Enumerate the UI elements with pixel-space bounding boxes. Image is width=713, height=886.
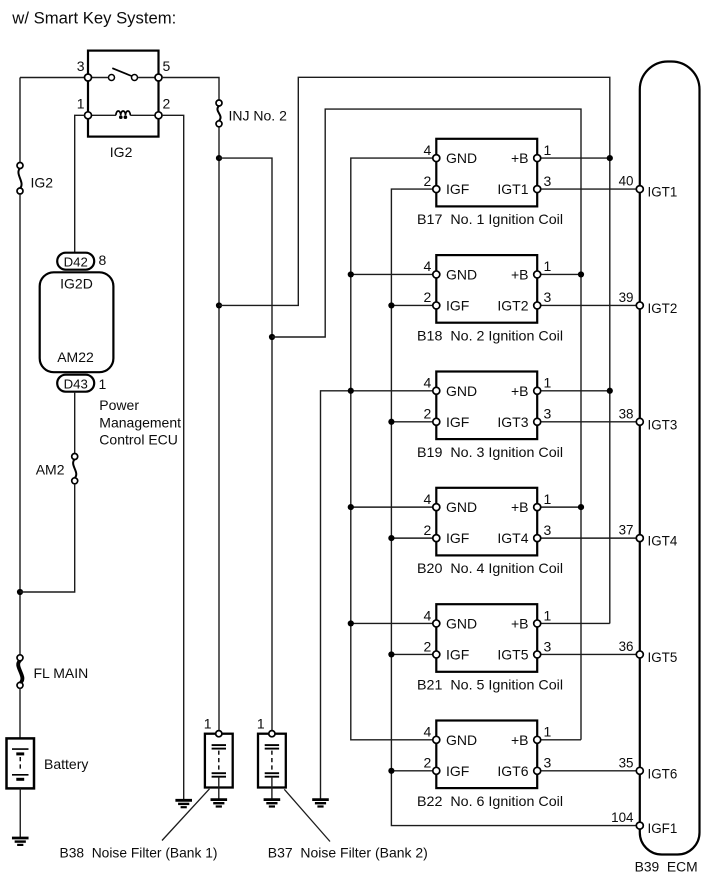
svg-text:B22 No. 6 Ignition Coil: B22 No. 6 Ignition Coil [417,793,563,809]
B18 pin 2 IGF [424,289,470,313]
wire: B22 IGF stub [391,770,436,772]
svg-text:IGF: IGF [446,297,469,313]
ECM pin 38 IGT3 [619,406,678,432]
svg-text:4: 4 [424,258,432,274]
battery B [7,738,89,788]
wire: B20 GND stub [351,506,437,508]
svg-text:B18 No. 2 Ignition Coil: B18 No. 2 Ignition Coil [417,327,563,343]
svg-text:+B: +B [511,266,529,282]
wire: B21 +B stub [541,622,610,624]
wire: relay switch internal [92,77,156,79]
ECM pin 35 IGT6 [619,755,678,781]
wire: B20 IGF stub [391,537,436,539]
svg-text:36: 36 [619,639,634,654]
wire: B18 GND stub [351,273,437,275]
label B19 No. 3 Ignition Coil [417,444,563,460]
svg-text:B20 No. 4 Ignition Coil: B20 No. 4 Ignition Coil [417,560,563,576]
wire: B22 +B stub [541,739,581,741]
Power Management Control ECU box [40,272,114,372]
svg-text:IGT3: IGT3 [497,414,528,430]
wire: bank1 bus riser [219,77,610,623]
wire: AM2 fuse to battery rail [20,484,75,592]
wire: IGT5 to ECM [541,653,636,655]
node: bank2 bus take-off [269,334,275,340]
B18 pin 1 +B [511,258,552,282]
ignition coil B20 box [436,488,537,556]
svg-text:B39 ECM: B39 ECM [635,859,698,874]
svg-text:4: 4 [424,724,432,740]
svg-text:Power: Power [99,397,139,413]
svg-text:GND: GND [446,499,477,515]
ignition coil B22 box [436,721,537,789]
svg-text:B21 No. 5 Ignition Coil: B21 No. 5 Ignition Coil [417,676,563,692]
B17 pin 1 +B [511,142,552,166]
B21 pin 3 IGT5 [497,638,551,662]
svg-text:B19 No. 3 Ignition Coil: B19 No. 3 Ignition Coil [417,444,563,460]
connector D42 [57,252,106,270]
B22 pin 3 IGT6 [497,755,551,779]
B17 pin 2 IGF [424,173,470,197]
relay terminal 2 [155,96,171,119]
B20 pin 2 IGF [424,522,470,546]
svg-text:1: 1 [544,491,552,507]
svg-text:104: 104 [611,810,634,825]
svg-text:39: 39 [619,290,634,305]
ignition coil B18 box [436,255,537,323]
svg-text:40: 40 [619,174,634,189]
svg-text:3: 3 [544,755,552,771]
svg-text:GND: GND [446,266,477,282]
svg-text:IGT2: IGT2 [648,301,678,316]
svg-text:2: 2 [424,638,432,654]
wire: IGF bus [391,189,636,826]
wire: battery rail mid segment [19,194,21,655]
label: Power Management Control ECU [99,397,181,448]
svg-text:IGT5: IGT5 [648,650,678,665]
label B18 No. 2 Ignition Coil [417,327,563,343]
label B20 No. 4 Ignition Coil [417,560,563,576]
B19 pin 2 IGF [424,406,470,430]
relay IG2 coil [92,111,156,119]
fuse IG2 [17,163,53,195]
B21 pin 4 GND [424,607,478,631]
fuse AM2 [36,454,78,484]
label B38 Noise Filter (Bank 1) [60,844,218,860]
svg-text:3: 3 [544,406,552,422]
svg-text:INJ No. 2: INJ No. 2 [229,108,288,124]
B18 pin 4 GND [424,258,478,282]
svg-text:IGT6: IGT6 [497,763,528,779]
B20 pin 1 +B [511,491,552,515]
svg-text:IGF1: IGF1 [648,821,678,836]
svg-text:+B: +B [511,499,529,515]
wire: FL MAIN to battery [19,688,21,738]
B21 pin 1 +B [511,607,552,631]
svg-text:1: 1 [99,376,107,392]
B22 pin 2 IGF [424,755,470,779]
svg-text:5: 5 [163,58,171,74]
label B22 No. 6 Ignition Coil [417,793,563,809]
B17 pin 3 IGT1 [497,173,551,197]
wire: B18 IGF stub [391,304,436,306]
ground: ignition coil bank 1 [312,800,329,807]
svg-text:D43: D43 [64,376,88,391]
svg-text:3: 3 [77,58,85,74]
svg-text:2: 2 [424,522,432,538]
wire: IGT6 to ECM [541,770,636,772]
node: IGF bus junction B22 [388,768,394,774]
B17 pin 4 GND [424,142,478,166]
svg-text:B38 Noise Filter (Bank 1): B38 Noise Filter (Bank 1) [60,844,218,860]
wire: relay terminal 1 to D42 [75,115,85,253]
node: +B bus junction B19 [607,388,613,394]
wire: IGT2 to ECM [541,304,636,306]
noise filter B37 (Bank 2) [257,716,286,807]
B21 pin 2 IGF [424,638,470,662]
B22 pin 1 +B [511,724,552,748]
wire: B19 +B stub [541,390,610,392]
svg-text:1: 1 [257,716,265,732]
svg-text:IGT3: IGT3 [648,417,678,432]
svg-text:IGT4: IGT4 [648,534,678,549]
svg-text:1: 1 [544,607,552,623]
noise filter B38 (Bank 1) [204,716,233,807]
svg-text:3: 3 [544,522,552,538]
ECM pin 104 IGF1 [611,810,677,836]
svg-text:D42: D42 [64,254,88,269]
ECM pin 36 IGT5 [619,639,678,665]
ignition coil B17 box [436,139,537,207]
svg-text:FL MAIN: FL MAIN [34,665,89,681]
svg-text:8: 8 [99,252,107,268]
svg-text:+B: +B [511,732,529,748]
node: +B bus junction B18 [578,271,584,277]
svg-text:+B: +B [511,615,529,631]
wire: IGT3 to ECM [541,421,636,423]
svg-text:Battery: Battery [44,756,88,772]
svg-text:2: 2 [424,755,432,771]
wire: battery to ground [19,788,21,837]
node: IGF bus junction B20 [388,535,394,541]
svg-text:2: 2 [163,96,171,112]
svg-text:1: 1 [544,375,552,391]
ground: battery [12,838,29,845]
svg-text:2: 2 [424,289,432,305]
B20 pin 4 GND [424,491,478,515]
node: IGF bus junction B18 [388,302,394,308]
svg-text:IGF: IGF [446,763,469,779]
svg-text:4: 4 [424,142,432,158]
ECM pin 40 IGT1 [619,174,678,200]
node: GND bus junction B20 [348,504,354,510]
wire: GND bus drop to ground [321,391,437,799]
relay terminal 1 [77,96,92,119]
label B21 No. 5 Ignition Coil [417,676,563,692]
wire: bank2 bus riser [272,109,581,740]
wire: relay terminal 5 to INJ No.2 fuse [162,78,219,100]
label B39 ECM [635,859,698,874]
svg-text:2: 2 [424,173,432,189]
B18 pin 3 IGT2 [497,289,551,313]
ignition coil B21 box [436,604,537,672]
node: +B bus junction B20 [578,504,584,510]
svg-text:3: 3 [544,173,552,189]
node: GND bus junction B21 [348,620,354,626]
svg-text:1: 1 [204,716,212,732]
B19 pin 4 GND [424,375,478,399]
wire: D43 to AM2 fuse [74,392,76,454]
svg-text:IGT4: IGT4 [497,530,528,546]
wire: B20 +B stub [541,506,581,508]
svg-text:3: 3 [544,289,552,305]
B20 pin 3 IGT4 [497,522,551,546]
svg-text:GND: GND [446,383,477,399]
svg-text:B37 Noise Filter (Bank 2): B37 Noise Filter (Bank 2) [268,844,428,860]
svg-text:37: 37 [619,523,634,538]
svg-text:IGT2: IGT2 [497,297,528,313]
wire: branch to B37 rail [219,158,272,730]
svg-text:B17 No. 1 Ignition Coil: B17 No. 1 Ignition Coil [417,211,563,227]
svg-text:GND: GND [446,150,477,166]
node: IGF bus junction B19 [388,419,394,425]
wire: B21 GND stub [351,622,437,624]
svg-text:Control ECU: Control ECU [99,432,178,448]
wire: battery rail top to relay terminal 3 [20,77,85,79]
node: +B bank2 take-off [216,155,222,161]
fusible link FL MAIN [17,655,88,689]
svg-text:IG2D: IG2D [60,275,93,291]
wire: IGT4 to ECM [541,537,636,539]
svg-text:4: 4 [424,491,432,507]
wire: relay terminal 2 to ground rail [162,115,184,799]
connector D43 [57,375,106,392]
svg-text:+B: +B [511,383,529,399]
node: +B bus junction B17 [607,155,613,161]
label B37 Noise Filter (Bank 2) [268,844,428,860]
svg-text:IG2: IG2 [110,144,133,160]
wire: IGT1 to ECM [541,188,636,190]
callout line B38 [162,789,210,841]
svg-text:IGT1: IGT1 [648,185,678,200]
svg-text:GND: GND [446,732,477,748]
svg-text:2: 2 [424,406,432,422]
B19 pin 3 IGT3 [497,406,551,430]
relay label IG2 [110,144,133,160]
svg-text:w/ Smart Key System:: w/ Smart Key System: [11,9,176,28]
svg-text:AM22: AM22 [57,349,94,365]
svg-text:IGF: IGF [446,414,469,430]
svg-text:1: 1 [544,258,552,274]
node: AM2 branch junction [17,589,23,595]
wire: INJ fuse down to B38 noise filter [218,128,220,731]
B22 pin 4 GND [424,724,478,748]
svg-text:IGT6: IGT6 [648,766,678,781]
svg-text:35: 35 [619,755,634,770]
wire: GND bus [351,158,437,740]
svg-text:1: 1 [544,724,552,740]
ground: relay coil [175,800,192,807]
relay terminal 5 [155,58,171,81]
svg-text:+B: +B [511,150,529,166]
relay terminal 3 [77,58,92,81]
ECM pin 37 IGT4 [619,523,678,549]
svg-text:AM2: AM2 [36,462,65,478]
wire: B18 +B stub [541,273,581,275]
relay IG2 box [88,51,159,137]
B19 pin 1 +B [511,375,552,399]
wire: B17 +B stub [541,157,610,159]
svg-text:38: 38 [619,406,634,421]
node: GND bus junction B18 [348,271,354,277]
node: GND bus junction B19 [348,388,354,394]
wire: B19 IGF stub [391,421,436,423]
label B17 No. 1 Ignition Coil [417,211,563,227]
ignition coil B19 box [436,372,537,440]
svg-text:4: 4 [424,375,432,391]
svg-text:IGT1: IGT1 [497,181,528,197]
svg-text:1: 1 [544,142,552,158]
svg-text:IG2: IG2 [31,174,54,190]
svg-text:4: 4 [424,607,432,623]
svg-text:IGF: IGF [446,530,469,546]
ECM B39 box [640,62,700,855]
wire: battery rail upper segment [19,78,21,163]
svg-text:IGT5: IGT5 [497,646,528,662]
svg-text:GND: GND [446,615,477,631]
node: IGF bus junction B21 [388,651,394,657]
ECM pin 39 IGT2 [619,290,678,316]
wire: B21 IGF stub [391,653,436,655]
svg-text:3: 3 [544,638,552,654]
node: +B bank1 take-off [216,302,222,308]
relay IG2 switch blade [109,68,138,80]
title: w/ Smart Key System [11,9,176,28]
svg-text:Management: Management [99,414,181,430]
callout line B37 [284,789,330,841]
fuse INJ No. 2 [216,100,287,127]
svg-text:IGF: IGF [446,646,469,662]
svg-text:IGF: IGF [446,181,469,197]
svg-text:1: 1 [77,96,85,112]
